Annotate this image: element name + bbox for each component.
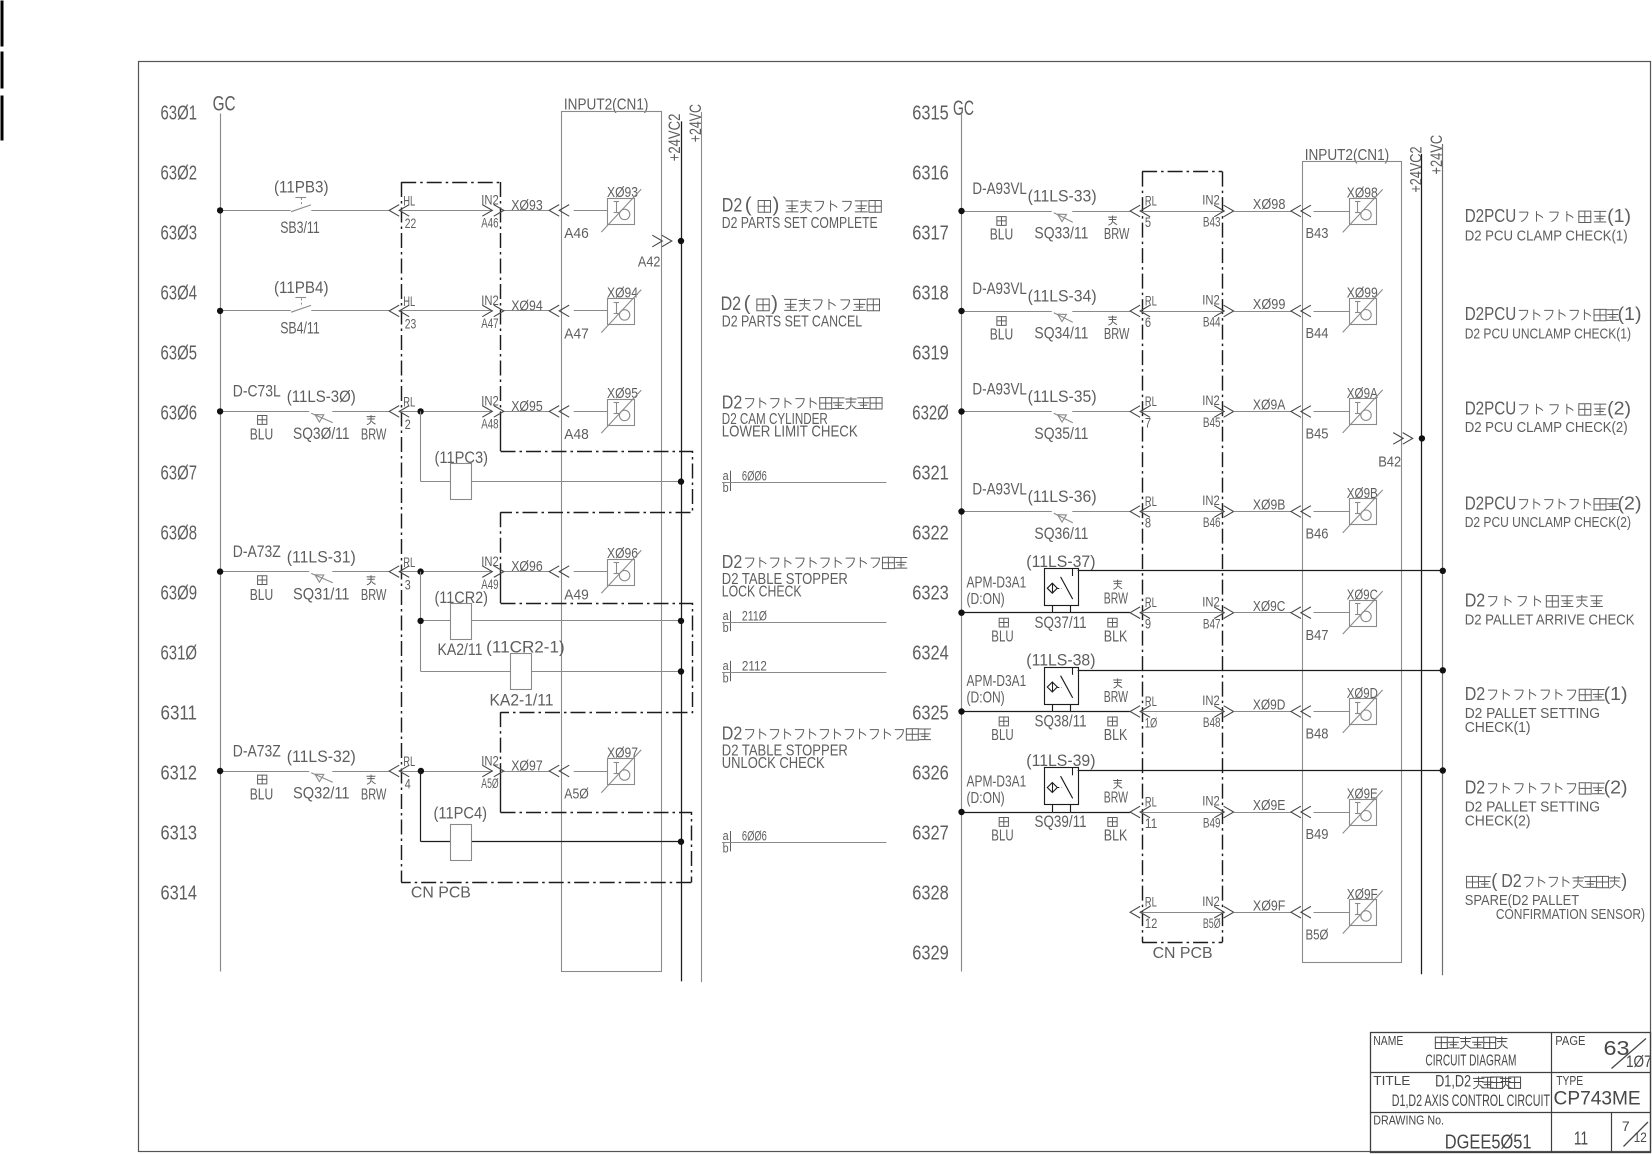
svg-text:SQ31/11: SQ31/11 [293, 584, 350, 603]
svg-text:KA2/11: KA2/11 [438, 640, 483, 659]
svg-text:): ) [771, 293, 778, 315]
wire KA2-1 branch [421, 668, 685, 674]
arrow into INPUT2 B44 [1291, 305, 1311, 317]
wire supply SQ39/11 to +24VC [1078, 767, 1446, 773]
link arrow A42 to +24VC2 [638, 235, 684, 270]
pin IN2 B44 (CN PCB right block right) [1202, 293, 1233, 330]
wire rung 6328 (X09F) [1142, 912, 1224, 914]
svg-text:8: 8 [1145, 515, 1151, 530]
svg-text:TYPE: TYPE [1556, 1073, 1583, 1088]
svg-text:D-A93VL: D-A93VL [972, 480, 1027, 499]
svg-text:B44: B44 [1306, 325, 1329, 342]
svg-text:63Ø1: 63Ø1 [161, 103, 198, 125]
svg-text:BLU: BLU [250, 786, 274, 803]
wire X09E label [1234, 797, 1291, 814]
note D2 PCU clamp check 1 [1465, 205, 1631, 245]
svg-text:APM-D3A1: APM-D3A1 [967, 673, 1027, 690]
wire X09B label [1234, 497, 1291, 514]
PCB boundary CN PCB right [1142, 172, 1222, 962]
svg-text:6324: 6324 [912, 643, 949, 665]
svg-text:A48: A48 [481, 417, 498, 432]
svg-text:DGEE5Ø51: DGEE5Ø51 [1445, 1131, 1532, 1154]
wire +24VC2 left [681, 121, 683, 981]
svg-text:D2: D2 [1465, 683, 1486, 704]
note D2 PCU unclamp check 1 [1465, 303, 1642, 343]
input point X09C (I/O symbol) [1343, 586, 1383, 634]
wire X09A label [1234, 397, 1291, 414]
svg-text:D-A93VL: D-A93VL [972, 179, 1027, 198]
svg-text:(1): (1) [1607, 205, 1631, 226]
title block DRAWING cell [1373, 1113, 1648, 1154]
svg-text:RL: RL [1145, 194, 1157, 209]
wire sensor X097 [564, 772, 608, 803]
pin RL10 (CN PCB right block left) [1130, 694, 1158, 730]
input point X098 (I/O symbol) [1343, 185, 1383, 233]
limit switch SQ32/11 (11LS-32) D-A73Z [233, 741, 387, 803]
wire sensor X093 [564, 211, 608, 243]
svg-text:): ) [773, 195, 780, 217]
pushbutton SB4/11 (11PB4) [274, 278, 329, 337]
wire sensor X09E [1306, 813, 1350, 844]
arrow into INPUT2 B46 [1291, 506, 1311, 518]
svg-text:LOCK CHECK: LOCK CHECK [722, 584, 802, 601]
svg-text:BLU: BLU [991, 628, 1013, 645]
svg-text:XØ9B: XØ9B [1253, 497, 1286, 514]
svg-text:D2 PALLET ARRIVE CHECK: D2 PALLET ARRIVE CHECK [1465, 611, 1635, 628]
arrow into INPUT2 A49 [549, 566, 569, 578]
svg-text:63Ø3: 63Ø3 [161, 223, 198, 245]
pin IN2 B46 (CN PCB right block right) [1202, 493, 1233, 530]
svg-text:1Ø7: 1Ø7 [1626, 1053, 1652, 1071]
svg-text:BRW: BRW [361, 786, 387, 803]
svg-text:D2: D2 [1501, 870, 1522, 891]
svg-text:RL: RL [1145, 694, 1157, 709]
svg-text:6318: 6318 [912, 283, 949, 305]
pin RL9 (CN PCB right block left) [1130, 595, 1157, 631]
svg-text:(11PC4): (11PC4) [434, 804, 488, 823]
svg-text:D2: D2 [722, 722, 743, 743]
svg-text:(11LS-32): (11LS-32) [287, 747, 356, 766]
svg-text:D-A73Z: D-A73Z [233, 741, 281, 760]
svg-text:6327: 6327 [912, 823, 949, 845]
svg-text:SQ35/11: SQ35/11 [1034, 424, 1088, 443]
node GC right [953, 97, 974, 120]
module INPUT2(CN1) left [562, 97, 662, 972]
wire +24VC left [701, 112, 703, 982]
svg-text:A42: A42 [638, 253, 661, 270]
svg-text:SQ36/11: SQ36/11 [1034, 524, 1088, 543]
limit switch SQ33/11 (11LS-33) D-A93VL [972, 179, 1129, 243]
svg-text:6323: 6323 [912, 583, 949, 605]
svg-text:D2: D2 [722, 196, 743, 217]
svg-text:D2: D2 [721, 294, 742, 315]
svg-text:XØ9A: XØ9A [1253, 397, 1286, 414]
svg-text:D1,D2 AXIS CONTROL CIRCUIT: D1,D2 AXIS CONTROL CIRCUIT [1392, 1092, 1550, 1110]
svg-text:LOWER LIMIT CHECK: LOWER LIMIT CHECK [722, 423, 858, 440]
note D2 pallet setting check 1 [1465, 683, 1628, 736]
pin IN2 B50 (CN PCB right block right) [1202, 894, 1233, 931]
pin IN2 B49 (CN PCB right block right) [1202, 794, 1233, 831]
svg-text:XØ99: XØ99 [1253, 296, 1286, 313]
proximity switch SQ38/11 (11LS-38) APM-D3A1 [967, 651, 1129, 745]
wire PC4 branch [421, 771, 685, 845]
input point X094 (I/O symbol) [601, 284, 641, 332]
svg-text:APM-D3A1: APM-D3A1 [967, 574, 1027, 591]
svg-text:): ) [1621, 870, 1627, 892]
note D2 PCU clamp check 2 [1465, 398, 1631, 437]
svg-text:B47: B47 [1306, 627, 1329, 644]
svg-text:D2 PCU UNCLAMP CHECK(1): D2 PCU UNCLAMP CHECK(1) [1465, 326, 1631, 343]
svg-text:(1): (1) [1604, 683, 1628, 704]
svg-text:B49: B49 [1203, 816, 1221, 831]
note D2 parts set cancel [721, 293, 880, 331]
wire PC3 branch [421, 411, 685, 484]
wire KA2 branch [417, 572, 684, 672]
svg-text:(2): (2) [1607, 398, 1631, 419]
title block NAME cell [1373, 1033, 1516, 1070]
svg-text:6321: 6321 [912, 463, 949, 485]
svg-text:DRAWING No.: DRAWING No. [1373, 1113, 1444, 1128]
bus +24VC right label [1427, 135, 1446, 175]
wire rung 6304 (X094) [217, 308, 549, 314]
wire rung 6323 (X09C) [958, 610, 1224, 616]
wire X09C label [1234, 598, 1291, 615]
svg-text:(11LS-35): (11LS-35) [1028, 387, 1097, 406]
link arrow B42 to +24VC2 [1378, 433, 1425, 471]
input point X096 (I/O symbol) [601, 545, 641, 593]
svg-text:A48: A48 [564, 426, 589, 443]
svg-text:B46: B46 [1306, 526, 1329, 543]
pin RL6 (CN PCB right block left) [1130, 294, 1157, 330]
limit switch SQ35/11 (11LS-35) D-A93VL [972, 380, 1096, 444]
svg-text:6317: 6317 [912, 223, 949, 245]
limit switch SQ34/11 (11LS-34) D-A93VL [972, 279, 1129, 343]
arrow into INPUT2 A47 [549, 305, 569, 317]
pin IN2 B48 (CN PCB right block right) [1202, 693, 1233, 730]
input point X095 (I/O symbol) [601, 385, 641, 433]
svg-text:IN2: IN2 [1202, 794, 1220, 809]
svg-text:A5Ø: A5Ø [564, 786, 589, 803]
wire X099 label [1234, 296, 1291, 313]
net link 2112 [722, 658, 886, 686]
limit switch SQ31/11 (11LS-31) D-A73Z [233, 542, 387, 604]
svg-text:SB3/11: SB3/11 [280, 218, 320, 237]
svg-text:XØ96: XØ96 [511, 558, 543, 575]
svg-text:RL: RL [1145, 394, 1157, 409]
svg-text:XØ9D: XØ9D [1253, 697, 1286, 714]
svg-text:BRW: BRW [1104, 689, 1128, 706]
svg-text:11: 11 [1574, 1128, 1588, 1148]
svg-text:11: 11 [1145, 816, 1157, 831]
wire X096 label [511, 558, 543, 575]
svg-text:BLU: BLU [250, 587, 274, 604]
svg-text:B47: B47 [1203, 616, 1221, 631]
arrow into INPUT2 B45 [1291, 406, 1311, 418]
pin IN2 A48 (CN PCB right) [481, 394, 504, 432]
svg-text:IN2: IN2 [1202, 693, 1220, 708]
svg-text:4: 4 [405, 777, 411, 792]
svg-text:(11LS-31): (11LS-31) [287, 547, 356, 566]
svg-text:B5Ø: B5Ø [1306, 926, 1329, 943]
bus GC right [961, 114, 963, 972]
svg-text:BLK: BLK [1104, 628, 1128, 645]
svg-text:SB4/11: SB4/11 [280, 318, 320, 337]
svg-text:6322: 6322 [912, 523, 949, 545]
svg-text:IN2: IN2 [1202, 193, 1220, 208]
svg-text:2112: 2112 [742, 658, 767, 674]
svg-text:(11PB3): (11PB3) [274, 177, 329, 196]
pin RL2 (CN PCB left) [389, 395, 415, 433]
svg-text:D-A73Z: D-A73Z [233, 542, 281, 561]
svg-text:63Ø5: 63Ø5 [161, 343, 198, 365]
svg-text:D2PCU: D2PCU [1465, 492, 1517, 513]
svg-text:B49: B49 [1306, 826, 1329, 843]
svg-text:A47: A47 [564, 326, 589, 343]
input point X09D (I/O symbol) [1343, 685, 1383, 733]
svg-text:A5Ø: A5Ø [481, 776, 499, 791]
relay coil PC3 (11PC3) [435, 448, 489, 500]
wire sensor X09B [1306, 512, 1350, 543]
svg-text:SQ33/11: SQ33/11 [1034, 224, 1088, 243]
svg-text:B48: B48 [1203, 715, 1221, 730]
svg-text:63Ø6: 63Ø6 [161, 403, 198, 425]
svg-text:(D:ON): (D:ON) [967, 790, 1005, 807]
svg-text:BLU: BLU [250, 427, 274, 444]
wire rung 6316 (X098) [958, 208, 1291, 214]
svg-text:IN2: IN2 [1202, 493, 1220, 508]
wire +24VC2 right [1421, 154, 1423, 974]
svg-text:5: 5 [1145, 215, 1151, 230]
svg-text:HL: HL [403, 194, 415, 209]
svg-text:+24VC: +24VC [1427, 135, 1446, 175]
svg-text:(D:ON): (D:ON) [967, 591, 1005, 608]
svg-text:CHECK(1): CHECK(1) [1465, 719, 1531, 736]
svg-text:B5Ø: B5Ø [1203, 916, 1221, 931]
wire X093 label [511, 197, 543, 214]
svg-text:6ØØ6: 6ØØ6 [742, 467, 767, 483]
svg-text:D2PCU: D2PCU [1465, 303, 1517, 324]
svg-text:2: 2 [405, 417, 411, 432]
svg-text:+24VC: +24VC [686, 104, 705, 142]
svg-text:D2: D2 [722, 551, 743, 572]
svg-text:XØ9C: XØ9C [1253, 598, 1286, 615]
svg-text:XØ9F: XØ9F [1253, 897, 1286, 914]
input point X099 (I/O symbol) [1343, 285, 1383, 333]
bus +24VC2 left label [665, 114, 684, 162]
svg-text:B45: B45 [1203, 415, 1221, 430]
pin HL23 (CN PCB left) [389, 294, 416, 332]
svg-text:B45: B45 [1306, 426, 1329, 443]
svg-text:SQ37/11: SQ37/11 [1035, 613, 1087, 632]
svg-text:(D:ON): (D:ON) [967, 690, 1005, 707]
svg-text:UNLOCK CHECK: UNLOCK CHECK [722, 755, 825, 772]
svg-text:A49: A49 [564, 586, 589, 603]
svg-text:D2 PARTS SET COMPLETE: D2 PARTS SET COMPLETE [722, 215, 878, 232]
pin RL5 (CN PCB right block left) [1130, 194, 1157, 230]
svg-text:RL: RL [1145, 795, 1157, 810]
bus GC left [220, 114, 222, 972]
svg-text:CONFIRMATION SENSOR): CONFIRMATION SENSOR) [1496, 906, 1645, 923]
wire sensor X099 [1306, 312, 1350, 343]
note D2 PCU unclamp check 2 [1465, 492, 1642, 531]
svg-text:(2): (2) [1604, 777, 1628, 798]
svg-text:(11LS-34): (11LS-34) [1028, 286, 1097, 305]
svg-text:(: ( [1491, 870, 1497, 892]
wire rung 6312 (X097) [217, 768, 549, 774]
svg-text:BLU: BLU [991, 727, 1013, 744]
svg-text:IN2: IN2 [1202, 393, 1220, 408]
arrow into INPUT2 B43 [1291, 205, 1311, 217]
svg-text:SQ34/11: SQ34/11 [1034, 324, 1088, 343]
wire sensor X09F [1306, 913, 1350, 944]
wire rung 6320 (X09A) [958, 408, 1291, 414]
wire rung 6302 (X093) [217, 207, 549, 213]
svg-text:BRW: BRW [1104, 326, 1130, 343]
arrow into INPUT2 B50 [1291, 906, 1311, 918]
svg-text:B43: B43 [1306, 225, 1329, 242]
svg-text:BLK: BLK [1104, 828, 1128, 845]
svg-text:XØ97: XØ97 [511, 757, 543, 774]
svg-text:(: ( [745, 195, 752, 217]
input point X09A (I/O symbol) [1343, 385, 1383, 433]
svg-text:(11PB4): (11PB4) [274, 278, 329, 297]
wire X09F label [1234, 897, 1291, 914]
svg-text:XØ95: XØ95 [511, 398, 543, 415]
svg-text:22: 22 [405, 216, 417, 231]
pin RL11 (CN PCB right block left) [1130, 795, 1157, 831]
net link 6006 [722, 467, 886, 495]
svg-text:D2PCU: D2PCU [1465, 398, 1517, 419]
svg-text:KA2-1/11: KA2-1/11 [490, 690, 554, 709]
svg-text:NAME: NAME [1373, 1033, 1403, 1048]
title block PAGE cell [1555, 1033, 1651, 1071]
bus +24VC2 right label [1406, 147, 1425, 193]
note D2 parts set complete [722, 195, 881, 233]
title block frame [1371, 1032, 1651, 1152]
svg-text:63Ø4: 63Ø4 [161, 283, 198, 305]
svg-text:D2 PCU CLAMP CHECK(1): D2 PCU CLAMP CHECK(1) [1465, 228, 1628, 245]
pin RL8 (CN PCB right block left) [1130, 494, 1157, 530]
note D2 table stopper unlock check [722, 722, 931, 772]
svg-text:CN PCB: CN PCB [411, 884, 471, 901]
svg-text:RL: RL [403, 555, 415, 570]
svg-text:SQ38/11: SQ38/11 [1035, 712, 1087, 731]
svg-text:12: 12 [1634, 1130, 1647, 1145]
svg-text:D2 PCU UNCLAMP CHECK(2): D2 PCU UNCLAMP CHECK(2) [1465, 514, 1631, 531]
svg-text:RL: RL [1145, 895, 1157, 910]
proximity switch SQ37/11 (11LS-37) APM-D3A1 [967, 552, 1129, 646]
svg-text:BRW: BRW [1104, 790, 1128, 807]
wire sensor X094 [564, 311, 608, 343]
wire rung 6325 (X09D) [958, 708, 1224, 714]
svg-text:B48: B48 [1306, 726, 1329, 743]
svg-text:APM-D3A1: APM-D3A1 [967, 774, 1027, 791]
svg-text:D2: D2 [722, 391, 743, 412]
wire X095 label [511, 398, 543, 415]
svg-text:6319: 6319 [912, 343, 949, 365]
svg-text:BRW: BRW [361, 427, 387, 444]
svg-text:6313: 6313 [161, 823, 198, 845]
net link 6006 [722, 828, 886, 856]
svg-text:D-A93VL: D-A93VL [972, 380, 1027, 399]
input point X09F (I/O symbol) [1343, 886, 1383, 934]
arrow into INPUT2 B48 [1291, 706, 1311, 718]
svg-text:63Ø9: 63Ø9 [161, 583, 198, 605]
wire sensor X095 [564, 412, 608, 444]
svg-text:6ØØ6: 6ØØ6 [742, 828, 767, 844]
pin IN2 B47 (CN PCB right block right) [1202, 594, 1233, 631]
svg-text:SQ3Ø/11: SQ3Ø/11 [293, 424, 350, 443]
svg-text:23: 23 [405, 317, 417, 332]
svg-text:6315: 6315 [912, 103, 949, 125]
proximity switch SQ39/11 (11LS-39) APM-D3A1 [967, 751, 1129, 845]
wire rung 6309 (X096) [217, 568, 549, 574]
pin RL12 (CN PCB right block left) [1130, 895, 1157, 931]
wire X09D label [1234, 697, 1291, 714]
svg-text:D-C73L: D-C73L [233, 382, 281, 401]
svg-text:SQ39/11: SQ39/11 [1035, 812, 1087, 831]
svg-text:CP743ME: CP743ME [1554, 1087, 1641, 1109]
arrow into INPUT2 A48 [549, 406, 569, 418]
svg-text:6: 6 [1145, 315, 1151, 330]
pin IN2 B43 (CN PCB right block right) [1202, 193, 1233, 230]
svg-text:6329: 6329 [912, 943, 949, 965]
wire X094 label [511, 297, 543, 314]
title block TITLE cell [1373, 1073, 1550, 1110]
svg-text:(2): (2) [1618, 492, 1642, 513]
svg-text:CHECK(2): CHECK(2) [1465, 812, 1531, 829]
pin HL22 (CN PCB left) [389, 194, 416, 232]
wire rung 6306 (X095) [217, 408, 549, 414]
wire rung 6322 (X09B) [958, 508, 1291, 514]
svg-text:A46: A46 [564, 225, 589, 242]
svg-text:PAGE: PAGE [1555, 1033, 1585, 1048]
svg-text:(: ( [744, 293, 751, 315]
svg-text:D2: D2 [1465, 589, 1486, 610]
svg-text:RL: RL [1145, 595, 1157, 610]
relay coil PC4 (11PC4) [434, 804, 488, 861]
svg-text:IN2: IN2 [1202, 293, 1220, 308]
svg-text:(1): (1) [1618, 303, 1642, 324]
left line numbers 6301-6314 [161, 103, 198, 905]
pin IN2 B45 (CN PCB right block right) [1202, 393, 1233, 430]
wire +24VC right [1442, 144, 1444, 975]
input point X09E (I/O symbol) [1343, 786, 1383, 834]
svg-text:A46: A46 [481, 216, 498, 231]
svg-text:6316: 6316 [912, 163, 949, 185]
title block TYPE cell [1554, 1073, 1641, 1110]
svg-text:B44: B44 [1203, 315, 1221, 330]
svg-text:7: 7 [1145, 415, 1151, 430]
svg-text:BRW: BRW [1104, 226, 1130, 243]
svg-text:6325: 6325 [912, 703, 949, 725]
note D2 pallet arrive check [1465, 589, 1635, 628]
node GC left [213, 93, 236, 116]
pin RL4 (CN PCB left) [389, 754, 415, 792]
arrow into INPUT2 B47 [1291, 607, 1311, 619]
svg-text:D2 PARTS SET CANCEL: D2 PARTS SET CANCEL [722, 314, 862, 331]
svg-text:XØ98: XØ98 [1253, 196, 1286, 213]
pin IN2 A46 (CN PCB right) [481, 193, 504, 231]
svg-text:BRW: BRW [361, 587, 387, 604]
svg-text:7: 7 [1622, 1119, 1630, 1134]
svg-text:63Ø8: 63Ø8 [161, 523, 198, 545]
wire sensor X09A [1306, 412, 1350, 443]
relay coil KA2-1/11 (11CR2-1) [486, 637, 565, 709]
svg-text:IN2: IN2 [1202, 894, 1220, 909]
svg-text:211Ø: 211Ø [742, 607, 767, 623]
svg-text:IN2: IN2 [1202, 594, 1220, 609]
